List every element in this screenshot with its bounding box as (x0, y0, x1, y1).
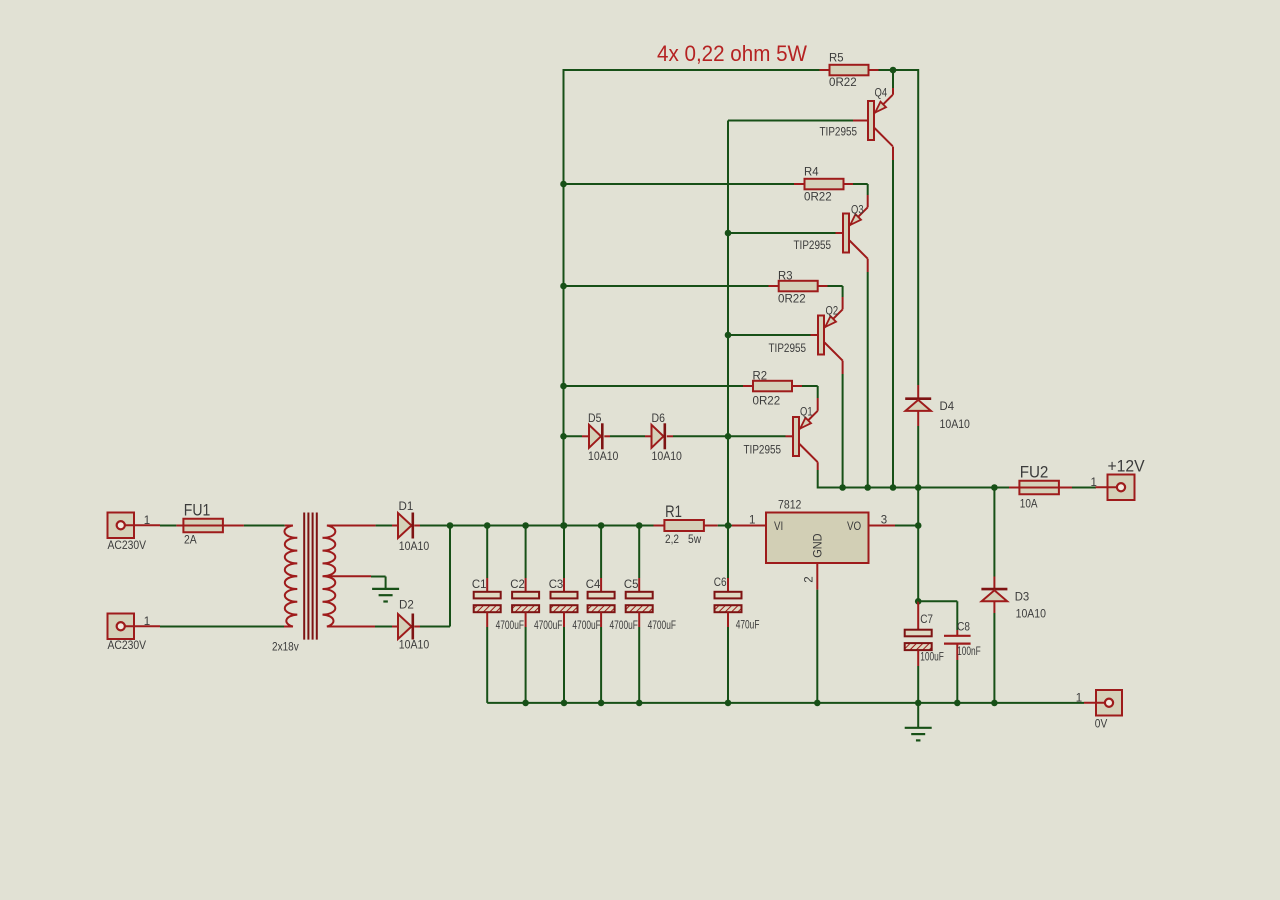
wire left input bus (563, 69, 565, 526)
ground (output) (905, 728, 932, 741)
label C8 (957, 622, 970, 634)
node C7/C8 branch (915, 598, 922, 605)
node base bus / Q3 (725, 230, 732, 237)
capacitor C3 (551, 526, 578, 703)
label AC230V (L) (108, 540, 147, 552)
label FU2 (1020, 462, 1049, 481)
wire center tap (371, 577, 386, 589)
node bottom rail / C3 (561, 700, 568, 707)
svg-text:C1: C1 (472, 579, 487, 591)
wire AC N to transformer (160, 626, 284, 628)
label D4 (940, 401, 955, 413)
label C5 (624, 579, 639, 591)
node VO / X918 (915, 522, 922, 529)
label TIP2955 (Q3) (794, 240, 832, 252)
label 2x18v (272, 642, 299, 654)
title label 4x 0,22 ohm 5W (657, 41, 808, 66)
transformer secondary coil (323, 526, 376, 627)
pin 2 (U1) (804, 576, 816, 582)
label D2 (399, 600, 414, 612)
wire Q3 base (728, 232, 843, 234)
diode D1 (392, 513, 420, 539)
value 10A10 (D5) (588, 451, 618, 463)
svg-text:4x 0,22 ohm 5W: 4x 0,22 ohm 5W (657, 41, 808, 66)
label TIP2955 (Q4) (820, 126, 858, 138)
wire R4 row (564, 183, 795, 185)
svg-text:100uF: 100uF (920, 652, 944, 664)
value 4700uF (C3) (572, 620, 600, 632)
wire VO node down to C7 node (917, 526, 919, 602)
label R1 (665, 502, 682, 521)
label +12V (1108, 457, 1146, 476)
svg-text:7812: 7812 (778, 500, 801, 512)
value 10A10 (D1) (399, 541, 429, 553)
value 10A10 (D3) (1016, 609, 1046, 621)
wire branch to C8 (918, 601, 957, 630)
svg-text:Q1: Q1 (800, 407, 813, 419)
svg-text:C8: C8 (957, 622, 970, 634)
node main rail / C5 (636, 522, 643, 529)
value 4700uF (C5) (648, 620, 676, 632)
node rail / Q2 collector (839, 484, 846, 491)
capacitor C6 (715, 526, 742, 703)
svg-text:0R22: 0R22 (829, 77, 857, 89)
svg-text:10A: 10A (1020, 499, 1038, 511)
value 10A10 (D2) (399, 640, 429, 652)
capacitor C8 (944, 630, 971, 703)
svg-text:1: 1 (144, 515, 150, 527)
wire FU1 to transformer (244, 525, 285, 527)
terminal +12V (1096, 475, 1135, 501)
node D1/D2 junction (447, 522, 454, 529)
svg-text:1: 1 (749, 515, 755, 527)
wire U1 VO pin (869, 525, 919, 527)
node input bus / D5 row (560, 433, 567, 440)
svg-text:10A10: 10A10 (399, 541, 429, 553)
svg-text:C6: C6 (714, 577, 727, 589)
node rail / Q3 collector (864, 484, 871, 491)
wire input bus to D5 (564, 435, 590, 437)
svg-text:R1: R1 (665, 502, 682, 521)
svg-text:10A10: 10A10 (940, 419, 970, 431)
wire Q2 collector (842, 361, 844, 488)
wire R3 row (564, 285, 769, 287)
svg-text:R2: R2 (753, 371, 768, 383)
node bottom rail / C2 (522, 700, 529, 707)
svg-text:100nF: 100nF (957, 646, 981, 658)
pin 1 (0V) (1076, 693, 1082, 705)
transformer core (304, 513, 317, 640)
node base bus / D6 / Q1 base (725, 433, 732, 440)
svg-text:D3: D3 (1015, 592, 1029, 604)
capacitor C2 (512, 526, 539, 703)
node input bus / R4 row (560, 181, 567, 188)
wire rail down to D3 (993, 488, 995, 589)
label R3 (778, 271, 793, 283)
label D1 (399, 501, 414, 513)
node main rail / C2 (522, 522, 529, 529)
transistor Q1 (793, 411, 818, 462)
label C7 (920, 614, 933, 626)
label Q3 (851, 204, 864, 216)
svg-text:FU2: FU2 (1020, 462, 1049, 481)
value 10A10 (D4) (940, 419, 970, 431)
svg-text:0R22: 0R22 (778, 294, 806, 306)
wire R3 to Q2 emitter (828, 286, 843, 309)
svg-text:5w: 5w (688, 534, 702, 546)
pin label VI (774, 521, 783, 533)
svg-text:VI: VI (774, 521, 783, 533)
value 470uF (C6) (736, 620, 760, 632)
svg-text:0V: 0V (1095, 719, 1108, 731)
node rail / D4 (915, 484, 922, 491)
svg-text:C7: C7 (920, 614, 933, 626)
svg-text:AC230V: AC230V (108, 640, 147, 652)
label R5 (829, 53, 844, 65)
svg-text:1: 1 (1076, 693, 1082, 705)
svg-text:C5: C5 (624, 579, 639, 591)
value 0R22 (R5) (829, 77, 857, 89)
svg-text:2x18v: 2x18v (272, 642, 299, 654)
svg-text:C4: C4 (586, 579, 601, 591)
label C1 (472, 579, 487, 591)
diode D4 (905, 385, 931, 488)
capacitor C4 (588, 526, 615, 703)
pin 1 (AC230V N) (144, 616, 150, 628)
svg-text:4700uF: 4700uF (496, 620, 524, 632)
wire rail to FU2 (1009, 487, 1019, 489)
wire R2 row (564, 385, 744, 387)
wire Q4 base (728, 120, 868, 122)
pin 3 (U1) (881, 515, 887, 527)
value 10A10 (D6) (652, 451, 682, 463)
wire Q2 base (728, 334, 818, 336)
wire D2 up to main rail (420, 526, 450, 627)
wire Q4 collector (892, 147, 894, 488)
node bottom rail / C8 (954, 700, 961, 707)
svg-text:C2: C2 (510, 579, 525, 591)
wire FU2 to +12V terminal (1059, 487, 1096, 489)
wire transformer to D2 (375, 626, 392, 628)
svg-text:4700uF: 4700uF (648, 620, 676, 632)
label R4 (804, 167, 819, 179)
svg-text:TIP2955: TIP2955 (820, 126, 858, 138)
fuse FU2 (1019, 481, 1059, 495)
node input bus / main rail (560, 522, 567, 529)
svg-text:4700uF: 4700uF (572, 620, 600, 632)
wire D3 to bottom rail (993, 601, 995, 703)
terminal 0V (1084, 690, 1122, 716)
svg-text:R3: R3 (778, 271, 793, 283)
diode D5 (589, 423, 602, 449)
svg-text:2: 2 (804, 576, 816, 582)
svg-text:D4: D4 (940, 401, 955, 413)
svg-text:4700uF: 4700uF (534, 620, 562, 632)
wire bottom rail (487, 702, 1084, 704)
value 2A (FU1) (184, 535, 197, 547)
node bottom rail / C6 (725, 700, 732, 707)
pin 1 (AC230V L) (144, 515, 150, 527)
wire R1 to U1 (718, 525, 766, 527)
value 4700uF (C1) (496, 620, 524, 632)
label Q1 (800, 407, 813, 419)
label D3 (1015, 592, 1029, 604)
diode D3 (981, 589, 1007, 601)
fuse FU1 (176, 519, 244, 533)
wire Q3 collector (867, 259, 869, 488)
wire base bus (727, 121, 729, 526)
svg-text:Q2: Q2 (826, 306, 839, 318)
svg-text:10A10: 10A10 (652, 451, 682, 463)
svg-text:AC230V: AC230V (108, 540, 147, 552)
diode D2 (392, 614, 420, 640)
svg-text:0R22: 0R22 (753, 396, 781, 408)
wire transformer to D1 (376, 525, 392, 527)
label Q2 (826, 306, 839, 318)
resistor R4 (794, 179, 853, 190)
node bottom rail / D3 (991, 700, 998, 707)
svg-text:FU1: FU1 (184, 500, 211, 519)
svg-text:C3: C3 (549, 579, 564, 591)
node bottom rail / C7 (915, 700, 922, 707)
node input bus / R2 row (560, 383, 567, 390)
value 4700uF (C2) (534, 620, 562, 632)
transistor Q3 (843, 207, 868, 258)
svg-text:Q4: Q4 (875, 88, 888, 100)
svg-text:TIP2955: TIP2955 (769, 343, 807, 355)
transformer primary coil (284, 526, 297, 627)
label 7812 (778, 500, 801, 512)
svg-text:2,2: 2,2 (665, 534, 679, 546)
svg-text:VO: VO (847, 521, 861, 533)
svg-text:4700uF: 4700uF (610, 620, 638, 632)
pin 1 (+12V) (1091, 477, 1097, 489)
value 2,2 5w (R1) (665, 534, 702, 546)
svg-text:R5: R5 (829, 53, 844, 65)
terminal AC230V (N) (108, 614, 161, 640)
value 10A (FU2) (1020, 499, 1038, 511)
node rail / Q4 collector (890, 484, 897, 491)
terminal AC230V (L) (108, 513, 161, 539)
svg-text:10A10: 10A10 (1016, 609, 1046, 621)
label D5 (588, 413, 601, 425)
node R5/Q4 emitter (890, 67, 897, 74)
value 100nF (C8) (957, 646, 981, 658)
node base bus / Q2 (725, 332, 732, 339)
value 0R22 (R4) (804, 192, 832, 204)
node bottom rail / C5 (636, 700, 643, 707)
regulator U1 7812 body (766, 513, 869, 564)
svg-text:TIP2955: TIP2955 (744, 444, 782, 456)
label TIP2955 (Q1) (744, 444, 782, 456)
node main rail / C4 (598, 522, 605, 529)
node main rail / C1 (484, 522, 491, 529)
wire AC L to FU1 (160, 525, 176, 527)
value 0R22 (R2) (753, 396, 781, 408)
label Q4 (875, 88, 888, 100)
svg-text:R4: R4 (804, 167, 819, 179)
wire D6 to Q1 base (667, 435, 793, 437)
resistor R1 (654, 520, 718, 531)
ground (transformer tap) (372, 589, 399, 602)
capacitor C5 (626, 526, 653, 703)
label 0V (1095, 719, 1108, 731)
node input bus / R3 row (560, 283, 567, 290)
transistor Q4 (868, 95, 893, 146)
label AC230V (N) (108, 640, 147, 652)
value 4700uF (C4) (610, 620, 638, 632)
wire ground stub (917, 703, 919, 728)
diode D6 (652, 423, 665, 449)
svg-text:GND: GND (813, 533, 825, 557)
wire Q4 emitter (892, 70, 894, 95)
svg-text:0R22: 0R22 (804, 192, 832, 204)
svg-text:+12V: +12V (1108, 457, 1146, 476)
wire +12V rail (818, 487, 1009, 489)
wire main rail (420, 525, 654, 527)
svg-text:D2: D2 (399, 600, 414, 612)
wire Q1 collector (817, 462, 819, 488)
svg-text:10A10: 10A10 (588, 451, 618, 463)
wire R4 to Q3 emitter (853, 184, 868, 207)
pin label VO (847, 521, 861, 533)
svg-text:D5: D5 (588, 413, 601, 425)
node R1 / base bus / VI (725, 522, 732, 529)
label R2 (753, 371, 768, 383)
wire R5 to node (879, 69, 919, 71)
svg-text:D1: D1 (399, 501, 414, 513)
wire R2 to Q1 emitter (802, 386, 818, 411)
svg-text:D6: D6 (652, 413, 665, 425)
label D6 (652, 413, 665, 425)
label FU1 (184, 500, 211, 519)
node bottom rail / C4 (598, 700, 605, 707)
wire D5 to D6 (604, 435, 651, 437)
capacitor C1 (474, 526, 501, 703)
node bottom rail / U1 GND (814, 700, 821, 707)
wire top rail to R5 (564, 69, 820, 71)
label C6 (714, 577, 727, 589)
svg-text:Q3: Q3 (851, 204, 864, 216)
pin label GND (813, 533, 825, 557)
wire top corner down to D4 (917, 69, 919, 385)
node main rail / C3 (561, 522, 568, 529)
svg-text:470uF: 470uF (736, 620, 760, 632)
value 0R22 (R3) (778, 294, 806, 306)
svg-text:1: 1 (144, 616, 150, 628)
svg-text:TIP2955: TIP2955 (794, 240, 832, 252)
resistor R2 (743, 381, 802, 392)
transistor Q2 (818, 309, 843, 360)
svg-text:2A: 2A (184, 535, 197, 547)
label C3 (549, 579, 564, 591)
value 100uF (C7) (920, 652, 944, 664)
wire rail to VO node (917, 488, 919, 526)
pin 1 (U1) (749, 515, 755, 527)
capacitor C7 (905, 601, 932, 703)
resistor R3 (769, 281, 828, 292)
label C4 (586, 579, 601, 591)
label C2 (510, 579, 525, 591)
wire U1 GND pin down (816, 563, 818, 703)
svg-text:10A10: 10A10 (399, 640, 429, 652)
node rail / D3 branch (991, 484, 998, 491)
label TIP2955 (Q2) (769, 343, 807, 355)
resistor R5 (820, 65, 879, 76)
